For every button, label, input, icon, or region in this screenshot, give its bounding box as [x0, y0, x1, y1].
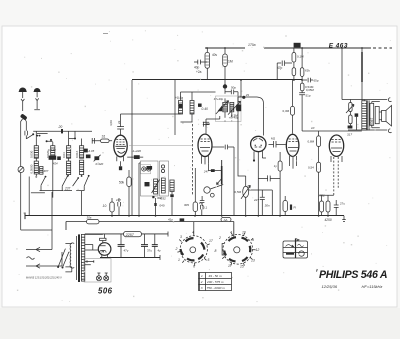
capacitor 0.1u	[200, 196, 205, 206]
svg-text:13: 13	[251, 259, 255, 263]
svg-text:37y: 37y	[147, 249, 152, 253]
node dot	[32, 133, 34, 135]
svg-text:9367: 9367	[370, 117, 374, 125]
svg-text:47+40p: 47+40p	[214, 97, 224, 101]
svg-text:65p: 65p	[314, 79, 319, 83]
wire under switches 2	[31, 192, 45, 194]
socket A	[180, 236, 207, 263]
capacitor col1	[39, 167, 41, 169]
capacitor grid top	[117, 114, 180, 135]
fuse AA right	[221, 218, 231, 222]
heater line	[66, 222, 234, 237]
svg-text:8: 8	[215, 249, 217, 253]
selector dots	[57, 266, 63, 269]
output transformer primary	[362, 100, 369, 130]
capacitor 0.1	[92, 138, 94, 144]
svg-text:0-420: 0-420	[96, 162, 104, 166]
wire grid	[302, 130, 362, 132]
coil L4 upper	[80, 139, 84, 159]
B+ end tick	[160, 232, 168, 261]
osc cap	[204, 122, 211, 127]
socket B bracket	[222, 244, 224, 256]
apostrophe mark	[316, 269, 319, 272]
wire transformer top/bottom	[342, 100, 387, 131]
wire screen row	[319, 195, 334, 201]
capacitor 237b	[118, 198, 121, 216]
core thin line	[75, 236, 77, 280]
wire rail2	[132, 79, 302, 81]
node dot V3 leg	[253, 159, 255, 161]
socket A ticks	[177, 222, 209, 266]
svg-text:1752: 1752	[318, 194, 325, 198]
node dot heater	[180, 218, 185, 221]
svg-text:17: 17	[228, 264, 232, 268]
capacitor 47p	[277, 61, 292, 81]
capacitor ant series	[25, 131, 28, 139]
wire rect to B+	[104, 234, 106, 239]
svg-text:30a: 30a	[87, 216, 92, 220]
osc trimmer 1	[179, 104, 182, 108]
waveform box	[283, 239, 308, 259]
phono jack	[204, 185, 223, 198]
IF1 coil b	[230, 102, 234, 111]
variable arrow	[346, 104, 354, 113]
IF1 trimmer a	[218, 105, 223, 111]
capacitor 40p	[194, 60, 207, 65]
svg-text:0-4.20: 0-4.20	[48, 148, 56, 152]
svg-text:47p: 47p	[277, 66, 283, 70]
svg-text:0,3M: 0,3M	[283, 109, 290, 113]
svg-text:317: 317	[347, 133, 352, 137]
bus start tick	[24, 213, 26, 220]
svg-text:40p: 40p	[194, 66, 200, 70]
filter cap 37u	[141, 234, 152, 258]
capacitor block dark on rail	[294, 43, 301, 48]
resistor 0.1M	[292, 48, 296, 68]
coil L2 upper	[51, 142, 55, 158]
resistor 420 dark	[127, 155, 143, 159]
output transformer secondary 9367	[370, 103, 374, 125]
socket B pins	[215, 231, 260, 269]
terminal C top	[388, 98, 391, 102]
antenna A2 earth	[34, 88, 40, 109]
svg-text:12/25/36: 12/25/36	[322, 284, 338, 289]
electrolytic pair	[320, 201, 330, 216]
heater dashes V5	[334, 157, 338, 195]
IF2 wire left	[139, 163, 141, 216]
tube V3 electrodes	[253, 139, 266, 216]
IF1 wires	[225, 98, 232, 121]
resistor 0.54M	[300, 83, 304, 91]
resistor R-HT1	[205, 48, 210, 80]
svg-text:+0,5g: +0,5g	[175, 96, 183, 100]
svg-text:4y: 4y	[158, 249, 162, 253]
svg-text:6: 6	[193, 265, 195, 269]
IF1 transformer box	[216, 96, 242, 122]
capacitor V2 anode	[212, 145, 234, 216]
wire gang frame vertical	[131, 80, 133, 216]
trimmer col2b	[57, 156, 61, 160]
osc coil 2	[190, 101, 194, 115]
power transformer primary bumps	[70, 243, 74, 268]
choke 2257	[124, 231, 142, 236]
capacitor cathode dark	[119, 166, 122, 170]
terminal C bottom	[388, 129, 391, 133]
svg-text:237: 237	[116, 198, 121, 202]
svg-text:M2: M2	[271, 137, 275, 141]
heater wires	[85, 260, 94, 265]
svg-text:30n: 30n	[265, 204, 270, 208]
resistor .10	[110, 198, 114, 216]
svg-text:Fl: Fl	[294, 206, 297, 210]
plug blade 1	[26, 247, 40, 251]
switch dots	[35, 175, 89, 179]
node dots rail2	[240, 79, 303, 81]
filter cap 47u	[118, 234, 129, 258]
resistor 62k b	[300, 48, 304, 83]
svg-text:40v: 40v	[212, 53, 218, 57]
socket B ticks	[222, 233, 255, 266]
switch ant	[26, 134, 33, 138]
IF2 coil a	[152, 179, 160, 194]
resistor 305	[193, 202, 197, 216]
svg-text:2: 2	[218, 236, 221, 240]
trimmer T3	[94, 155, 101, 162]
capacitor 20 feedthrough	[61, 129, 63, 133]
IF2 trimmer dark a	[145, 182, 150, 186]
capacitor 65p	[302, 78, 313, 83]
node dot big	[223, 84, 227, 88]
avc line	[129, 145, 192, 147]
osc wires	[181, 92, 216, 122]
wire left drop	[21, 173, 52, 230]
socket B	[223, 235, 253, 265]
coil small dark	[348, 126, 353, 129]
rectifier anodes	[100, 238, 107, 252]
capacitor 227	[260, 190, 265, 216]
osc coil 1	[179, 101, 183, 115]
svg-text:0,016: 0,016	[75, 150, 79, 158]
svg-text:0,3M: 0,3M	[231, 114, 238, 118]
fuse 30a	[87, 216, 100, 224]
switch dots2	[37, 135, 41, 137]
svg-text:170a: 170a	[248, 43, 256, 47]
svg-text:3: 3	[180, 235, 182, 239]
svg-text:47y: 47y	[124, 249, 129, 253]
osc trimmer 2	[198, 104, 202, 107]
svg-text:9: 9	[252, 238, 254, 242]
IF1 arrow a	[216, 101, 229, 114]
svg-text:5: 5	[208, 258, 210, 262]
capacitor 27y	[201, 205, 203, 216]
bus junction dots	[111, 215, 329, 217]
svg-text:.10: .10	[102, 204, 107, 208]
tube V2	[198, 134, 212, 156]
svg-text:487: 487	[44, 169, 49, 173]
svg-text:E 463: E 463	[329, 43, 348, 50]
plug blade 2	[36, 264, 40, 268]
wire osc vertical	[174, 80, 176, 135]
tube V3 round	[251, 136, 266, 151]
svg-text:PHILIPS 546 A: PHILIPS 546 A	[319, 269, 388, 281]
wire antenna split right	[25, 120, 26, 131]
antenna connector bean	[20, 113, 28, 120]
IF1 arrow b	[228, 101, 241, 114]
tube V2 electrodes	[200, 139, 210, 164]
svg-text:51p: 51p	[306, 94, 311, 98]
capacitor 302	[152, 196, 154, 198]
wire IF1 to V3	[241, 80, 263, 136]
primary tap wires	[65, 244, 71, 272]
trimmer col4 b	[86, 155, 91, 159]
tube V1	[114, 135, 127, 157]
capacitor H	[258, 175, 280, 181]
coil S1	[92, 139, 112, 143]
resistor 100	[349, 115, 352, 126]
svg-text:50p: 50p	[231, 86, 236, 90]
svg-text:HF=115kHz: HF=115kHz	[362, 284, 383, 289]
lamp 1	[96, 273, 101, 281]
svg-text:1M: 1M	[228, 60, 233, 64]
capacitor 040 dark2	[154, 203, 156, 206]
coil L4 lower	[80, 160, 84, 176]
resistor 70	[349, 100, 352, 116]
bypass circles	[142, 167, 151, 171]
capacitor IF2b dark	[170, 194, 173, 197]
svg-text:2257: 2257	[125, 233, 135, 237]
svg-text:A.05: A.05	[87, 149, 94, 153]
mains plug wire 2	[26, 252, 62, 266]
lamp 2	[104, 273, 109, 281]
wire pot to caps	[249, 190, 272, 216]
svg-text:1: 1	[178, 258, 180, 262]
svg-text:0,5M: 0,5M	[235, 190, 242, 194]
speaker magnet	[375, 107, 379, 124]
pot 0.5M	[241, 176, 250, 216]
capacitor 50p	[225, 89, 238, 105]
wire top links	[47, 131, 75, 142]
IF2 trimmer a	[147, 166, 153, 170]
svg-text:27y: 27y	[340, 202, 345, 206]
svg-text:15: 15	[240, 265, 244, 269]
stray mark top	[103, 33, 108, 35]
svg-text:3: 3	[201, 286, 203, 290]
svg-text:506: 506	[98, 287, 113, 296]
rail junction dots	[206, 47, 363, 49]
wire col2 down	[52, 158, 54, 197]
svg-text:4252: 4252	[160, 196, 166, 200]
wire sec to rectifier	[85, 245, 99, 251]
svg-text:S1: S1	[102, 135, 106, 139]
wire col4 to bus	[81, 191, 83, 216]
feedthrough cap	[211, 169, 215, 172]
tube V1 electrodes	[115, 140, 126, 167]
transformer core bar	[78, 234, 80, 282]
resistor Rtone	[283, 196, 287, 216]
svg-text:0,1M: 0,1M	[297, 55, 304, 59]
IF1 trimmer b	[237, 104, 242, 111]
svg-text:K04: K04	[53, 161, 58, 165]
capacitor Fl	[290, 205, 292, 210]
svg-text:10: 10	[242, 231, 246, 235]
bypass circles box	[140, 165, 150, 174]
capacitor 51p	[299, 91, 305, 131]
B+ lower rail	[100, 257, 160, 259]
IF2 transformer box a	[141, 161, 159, 196]
svg-text:49 - 52 m: 49 - 52 m	[209, 274, 222, 278]
resistor 50k	[127, 170, 131, 216]
resistor R-HT2	[223, 48, 228, 85]
resistor IF2b	[170, 180, 174, 216]
svg-text:4: 4	[192, 231, 194, 235]
capacitor M2	[269, 141, 286, 148]
B+ rail	[85, 233, 168, 235]
svg-text:200 - 575 m: 200 - 575 m	[206, 280, 224, 284]
wire cap drop	[355, 117, 357, 130]
tube V5 output	[329, 135, 343, 156]
svg-text:41y: 41y	[168, 217, 173, 221]
filter cap 4u	[152, 234, 161, 258]
svg-text:227: 227	[253, 198, 259, 202]
wire to output stage	[342, 48, 362, 101]
coil L3 lower	[67, 158, 71, 176]
jack circle left	[18, 167, 24, 173]
svg-text:237: 237	[64, 186, 71, 190]
svg-text:-1+420: -1+420	[132, 149, 142, 153]
svg-text:AA: AA	[223, 218, 228, 222]
svg-text:MAINS 125,150,200,220,245 V: MAINS 125,150,200,220,245 V	[26, 276, 62, 280]
wire col1sw to bus	[28, 177, 30, 216]
capacitor 27u	[334, 200, 339, 216]
resistor 0.3M	[236, 105, 246, 176]
coil L1b small	[40, 167, 43, 175]
resistor 0.16M	[291, 80, 295, 134]
rectifier legs	[102, 255, 108, 258]
wire 040	[155, 198, 157, 216]
svg-text:2: 2	[175, 247, 178, 251]
lamp box	[84, 259, 111, 283]
svg-text:50k: 50k	[119, 181, 125, 185]
capacitor electrolytic line	[361, 52, 363, 82]
svg-text:0,54: 0,54	[308, 166, 314, 170]
capacitor V2 grid	[203, 116, 220, 134]
IF2 trimmer b	[161, 165, 164, 173]
switch row S2	[41, 176, 89, 186]
resistor anode V3	[278, 152, 282, 216]
svg-text:0,05M: 0,05M	[306, 88, 314, 92]
svg-text:20: 20	[58, 125, 63, 129]
IF2 coil b	[161, 178, 165, 193]
resistor 0.54	[317, 162, 321, 216]
socket A pins	[175, 231, 213, 269]
svg-text:040: 040	[160, 204, 165, 208]
svg-text:4: 4	[230, 231, 232, 235]
tube V5 electrodes	[331, 140, 342, 163]
band table	[199, 273, 232, 291]
wire top HT rail	[205, 47, 392, 49]
svg-text:10: 10	[311, 126, 315, 130]
svg-text:0,030: 0,030	[30, 150, 34, 158]
IF2 transformer box b	[160, 161, 169, 196]
svg-text:750 - 2000 m: 750 - 2000 m	[207, 286, 226, 290]
svg-text:+2a: +2a	[196, 70, 202, 74]
svg-text:4,09: 4,09	[109, 120, 113, 126]
svg-text:2: 2	[200, 280, 203, 284]
IF1 coil a	[223, 102, 228, 111]
scan speckle noise	[14, 30, 391, 302]
speaker body	[379, 106, 391, 127]
svg-text:0,04: 0,04	[62, 152, 66, 158]
wire antenna split left	[21, 119, 23, 166]
coil L1 upper	[34, 131, 38, 158]
svg-text:247: 247	[203, 169, 209, 173]
power transformer secondary ladder	[81, 234, 84, 281]
voltage selector	[58, 249, 69, 268]
ground end	[342, 216, 346, 222]
svg-text:29: 29	[245, 93, 250, 97]
ac symbol	[27, 257, 35, 260]
wire top coil row	[33, 131, 92, 133]
tube V4	[286, 134, 299, 156]
trimmer 0-4.20	[49, 156, 57, 160]
tube V4 electrodes	[288, 139, 298, 169]
svg-text:62k: 62k	[305, 69, 310, 73]
coil L1 lower	[34, 158, 38, 176]
svg-text:0,1: 0,1	[203, 206, 208, 210]
svg-text:0,0500: 0,0500	[30, 164, 34, 173]
resistor 0.8M	[317, 131, 321, 162]
wire sec top to B+	[85, 233, 103, 235]
wire under switches	[40, 185, 85, 190]
antenna A1	[19, 88, 26, 111]
wire V2 leg to pot	[209, 160, 222, 171]
node dot	[242, 96, 245, 99]
rectifier tube	[98, 243, 111, 256]
svg-text:0,8M: 0,8M	[308, 140, 315, 144]
svg-text:0-40: 0-40	[202, 107, 209, 111]
wire avc drop	[238, 97, 244, 105]
svg-text:12: 12	[256, 248, 260, 252]
capacitor 50n dark	[355, 113, 359, 116]
main bus	[25, 215, 344, 217]
svg-text:305: 305	[184, 203, 189, 207]
svg-text:17: 17	[209, 239, 213, 243]
wire 305 up	[194, 168, 196, 202]
svg-text:4250: 4250	[325, 218, 332, 222]
coil L3 upper	[67, 131, 71, 158]
shield line	[192, 124, 194, 196]
svg-text:1: 1	[201, 274, 203, 278]
volume pot	[217, 160, 222, 216]
resistor 62k a	[292, 68, 296, 80]
node dots top row	[46, 138, 76, 143]
mains plug wire 1	[26, 230, 52, 250]
trimmer col4 a	[84, 149, 88, 153]
